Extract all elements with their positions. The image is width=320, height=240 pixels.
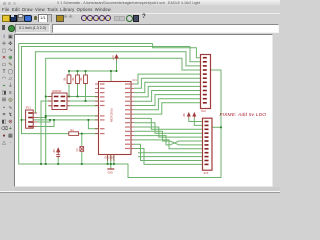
- wire W14: [85, 71, 87, 75]
- svg-text:SV1: SV1: [26, 106, 32, 110]
- wire W55: [194, 119, 204, 126]
- resistor R3: [84, 75, 88, 84]
- wire W24: [37, 117, 46, 119]
- junction at 77.5,71: [77, 70, 79, 72]
- crystal Q1: [80, 147, 84, 152]
- junction at 81.8,164: [81, 163, 83, 165]
- wire SV1 pin1 to SV2 pin 3: [35, 52, 200, 113]
- capacitor C3 with +5V arrow: [57, 148, 60, 154]
- wire IC pin to SV2 pin 8: [134, 86, 201, 97]
- junction at 81.8,133.6: [81, 133, 83, 135]
- wire W33: [110, 155, 112, 165]
- wire net SDA: [22, 119, 99, 121]
- wire net to SV2 pin 2: [22, 47, 201, 134]
- wire W26: [37, 120, 54, 127]
- svg-text:+5V: +5V: [53, 149, 56, 154]
- wire W29: [88, 120, 98, 129]
- wire W28: [82, 133, 99, 135]
- wire W20: [41, 101, 52, 164]
- wire W25: [37, 120, 50, 122]
- wire W17: [67, 100, 99, 102]
- canvas: [14, 34, 273, 187]
- wire IC pin to SV2 pin 5: [134, 74, 201, 84]
- junction at 88.4,119.9: [88, 119, 90, 121]
- junction at 85.5,71: [85, 70, 87, 72]
- junction at 221,127.3: [220, 126, 222, 128]
- wire IC to SV3 pin 4: [134, 123, 204, 134]
- wire IC pin to SV2 pin 12: [134, 103, 201, 114]
- supply +5V B: [193, 113, 196, 119]
- second toolbar row: [0, 22, 280, 33]
- junction at 45.7,115.9: [45, 115, 47, 117]
- main toolbar: [0, 13, 280, 24]
- junction at 41,164: [40, 163, 42, 165]
- wire W56: [212, 126, 221, 128]
- right gutter: [273, 34, 280, 187]
- IC U1 microcontroller: [99, 82, 132, 155]
- wire W34: [113, 155, 115, 165]
- wire IC to SV3 pin 12: [134, 149, 204, 165]
- wire W16: [66, 96, 99, 98]
- svg-text:SV2: SV2: [201, 110, 206, 113]
- schematic drawing: [0, 0, 280, 200]
- svg-text:+5V: +5V: [111, 55, 115, 60]
- wire W23: [35, 112, 37, 114]
- wire IC pin to SV2 pin 7: [134, 82, 201, 92]
- wire W11: [68, 84, 70, 97]
- junction at 110.8,164: [110, 163, 112, 165]
- wire IC pin to SV2 pin 10: [134, 95, 201, 106]
- connector SV2: [201, 55, 211, 109]
- wire IC to SV3 pin 3: [134, 118, 204, 129]
- wire IC to SV3 pin 8: [134, 140, 204, 149]
- resistor R4: [69, 132, 79, 136]
- wire W54: [189, 119, 204, 122]
- wire W18: [67, 105, 99, 107]
- junction at 58.2,164: [57, 163, 59, 165]
- wire IC pin to SV2 pin 9: [134, 91, 201, 102]
- junction at 69,96.5: [68, 96, 70, 98]
- junction at 21.5,119.9: [21, 119, 23, 121]
- svg-text:IC1: IC1: [133, 78, 138, 82]
- wire IC to SV3 pin 7 crossover: [134, 131, 204, 145]
- supply +5V P1: [115, 55, 118, 61]
- menu bar: [0, 7, 280, 13]
- svg-text:FIXME: Add 5v LDO: FIXME: Add 5v LDO: [220, 112, 267, 118]
- connector SV1: [26, 110, 34, 128]
- svg-text:MCP23016: MCP23016: [110, 108, 114, 122]
- junction at 116.5,71: [116, 70, 118, 72]
- svg-text:+5V: +5V: [183, 113, 186, 118]
- junction at 77.5,96.5: [77, 96, 79, 98]
- wire W35: [110, 164, 112, 169]
- wire W10: [68, 71, 70, 75]
- wire to SV3 pin 10: [138, 156, 204, 158]
- wire W9: [110, 71, 112, 82]
- wire IC to SV3 pin 11: [134, 144, 204, 160]
- connector SV3: [203, 118, 213, 170]
- wire IC to SV3 pin 6 crossover: [134, 136, 204, 145]
- svg-text:10k: 10k: [80, 77, 83, 82]
- junction at 45.7,96.5: [45, 96, 47, 98]
- header JP1 AVRISP: [52, 93, 67, 110]
- svg-text:10k: 10k: [64, 77, 67, 82]
- wire IC to SV3 pin 5: [134, 127, 204, 137]
- svg-text:10k: 10k: [72, 77, 75, 82]
- junction at 50,119.9: [49, 119, 51, 121]
- wire W32: [107, 155, 109, 165]
- svg-text:Q1: Q1: [76, 148, 79, 152]
- svg-text:SV3: SV3: [204, 172, 209, 175]
- resistor R1: [67, 75, 71, 84]
- wire W12: [77, 71, 79, 75]
- junction at 107.6,164: [107, 163, 109, 165]
- wire to SV3 pin 9: [138, 152, 204, 154]
- title bar: [0, 0, 280, 8]
- junction at 45.7,164: [45, 163, 47, 165]
- wire W22: [46, 115, 99, 117]
- wire net GND loop: [19, 44, 221, 178]
- wire W30: [57, 158, 59, 164]
- status bar: [0, 192, 280, 202]
- left tool palette: [0, 33, 14, 189]
- command field: [52, 24, 279, 33]
- wire W19: [46, 96, 52, 98]
- junction at 54,119.9: [53, 119, 55, 121]
- wire W13: [77, 84, 79, 97]
- wire W15: [85, 84, 87, 102]
- wire W31: [81, 152, 83, 164]
- junction at 69,71: [68, 70, 70, 72]
- bottom scrollbar strip: [14, 187, 280, 191]
- wire SV1 rail to SV2 pin 4: [46, 58, 201, 164]
- junction at 45.7,117.5: [45, 117, 47, 119]
- wire W27: [79, 134, 82, 146]
- junction at 113.9,164: [113, 163, 115, 165]
- supply +5V A: [187, 113, 190, 119]
- svg-text:GND: GND: [108, 171, 114, 174]
- wire W8: [116, 61, 118, 72]
- coord box: [15, 24, 50, 33]
- wire +5V rail: [69, 70, 117, 72]
- wire IC pin to SV2 pin 6: [134, 78, 201, 88]
- svg-text:AVRISP: AVRISP: [52, 89, 62, 93]
- ground GND: [107, 168, 114, 170]
- wire to SV2 pin 1: [153, 44, 201, 58]
- junction at 85.5,101: [85, 100, 87, 102]
- svg-text:VSS VSS: VSS VSS: [104, 158, 114, 160]
- resistor R2: [76, 75, 80, 84]
- wire W21: [49, 105, 52, 107]
- wire IC pin to SV2 pin 11: [134, 99, 201, 110]
- junction at 111,71: [110, 70, 112, 72]
